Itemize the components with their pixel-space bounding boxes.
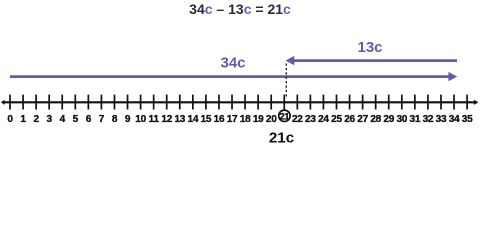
svg-text:8: 8 xyxy=(112,114,118,125)
svg-text:18: 18 xyxy=(240,114,251,125)
svg-text:24: 24 xyxy=(318,114,329,125)
svg-text:33: 33 xyxy=(436,114,447,125)
svg-text:32: 32 xyxy=(423,114,434,125)
svg-text:34c: 34c xyxy=(220,54,245,71)
svg-text:15: 15 xyxy=(201,114,212,125)
svg-text:11: 11 xyxy=(149,114,160,125)
svg-text:13c: 13c xyxy=(357,39,382,56)
svg-text:2: 2 xyxy=(33,114,39,125)
svg-text:34: 34 xyxy=(449,114,460,125)
svg-text:10: 10 xyxy=(135,114,146,125)
svg-text:23: 23 xyxy=(305,114,316,125)
svg-text:1: 1 xyxy=(20,114,26,125)
svg-text:9: 9 xyxy=(125,114,131,125)
svg-text:27: 27 xyxy=(357,114,368,125)
svg-text:26: 26 xyxy=(344,114,355,125)
svg-text:4: 4 xyxy=(60,114,66,125)
svg-text:22: 22 xyxy=(292,114,303,125)
svg-text:28: 28 xyxy=(370,114,381,125)
svg-text:16: 16 xyxy=(214,114,225,125)
svg-text:7: 7 xyxy=(99,114,105,125)
svg-text:12: 12 xyxy=(161,114,172,125)
svg-text:30: 30 xyxy=(396,114,407,125)
svg-text:35: 35 xyxy=(462,114,473,125)
svg-text:29: 29 xyxy=(383,114,394,125)
svg-text:31: 31 xyxy=(410,114,421,125)
svg-text:34c – 13c = 21c: 34c – 13c = 21c xyxy=(189,1,291,17)
svg-text:0: 0 xyxy=(7,114,13,125)
svg-text:25: 25 xyxy=(331,114,342,125)
svg-text:20: 20 xyxy=(266,114,277,125)
svg-text:5: 5 xyxy=(73,114,79,125)
svg-text:13: 13 xyxy=(174,114,185,125)
svg-text:21c: 21c xyxy=(269,129,294,146)
svg-text:19: 19 xyxy=(253,114,264,125)
svg-text:14: 14 xyxy=(188,114,199,125)
svg-text:6: 6 xyxy=(86,114,92,125)
svg-text:3: 3 xyxy=(47,114,53,125)
svg-text:17: 17 xyxy=(227,114,238,125)
